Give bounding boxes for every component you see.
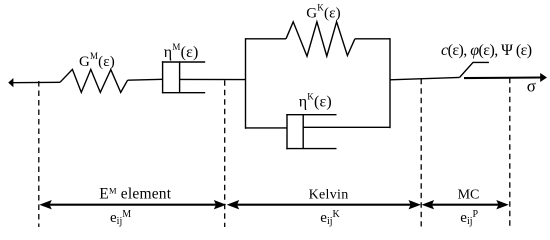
Kelvin top-right wire bbox=[355, 38, 390, 40]
dashed separator line 4 bbox=[509, 78, 511, 227]
svg-text:ηM(ε): ηM(ε) bbox=[164, 42, 199, 61]
Kelvin top-left wire bbox=[246, 38, 287, 40]
dashed separator line 2 bbox=[224, 80, 226, 227]
dashed separator line 3 bbox=[420, 79, 422, 227]
svg-text:EM element: EM element bbox=[99, 186, 171, 203]
svg-text:GM(ε): GM(ε) bbox=[79, 51, 115, 70]
svg-text:MC: MC bbox=[458, 187, 480, 202]
spring GM bbox=[60, 69, 128, 92]
svg-text:σ: σ bbox=[527, 77, 536, 96]
wire Kelvin to slider bbox=[390, 77, 460, 79]
dashpot etaK left wall bbox=[286, 114, 288, 149]
slider MC flipper diagonal bbox=[460, 62, 489, 77]
wire spring to dashpot bbox=[128, 78, 163, 81]
MC section arrow right head bbox=[496, 200, 509, 209]
svg-text:Kelvin: Kelvin bbox=[309, 187, 349, 202]
dashpot etaM piston plate bbox=[179, 62, 181, 93]
Kelvin section arrow right head bbox=[409, 200, 422, 209]
dashpot etaK cylinder top bbox=[286, 114, 336, 116]
Kelvin section arrow shaft bbox=[232, 204, 414, 206]
EM section arrow right head bbox=[214, 200, 227, 209]
dashpot etaK rod wire bbox=[303, 126, 390, 128]
spring GK bbox=[286, 22, 355, 56]
Kelvin right bar bbox=[389, 38, 391, 128]
Kelvin left bar bbox=[245, 38, 247, 129]
dashpot etaK piston plate bbox=[302, 115, 304, 149]
EM section arrow left head bbox=[39, 200, 52, 209]
Kelvin bottom-left wire bbox=[246, 127, 288, 129]
Kelvin section arrow left head bbox=[227, 200, 240, 209]
MC section arrow left head bbox=[422, 200, 435, 209]
dashpot etaM cylinder top bbox=[162, 61, 205, 63]
svg-text:eijM: eijM bbox=[110, 209, 131, 227]
svg-text:eijK: eijK bbox=[320, 209, 340, 227]
svg-text:eijP: eijP bbox=[460, 209, 478, 227]
sigma output wire bbox=[464, 76, 541, 79]
MC section arrow shaft bbox=[428, 204, 502, 206]
dashpot etaM cylinder bottom bbox=[162, 92, 205, 94]
wire left arrow to spring bbox=[12, 81, 61, 83]
svg-text:ηK(ε): ηK(ε) bbox=[299, 92, 332, 111]
svg-text:GK(ε): GK(ε) bbox=[306, 2, 341, 21]
dashpot etaM left wall bbox=[162, 61, 164, 93]
dashpot etaK cylinder bottom bbox=[286, 148, 336, 150]
dashed separator line 1 bbox=[38, 81, 40, 227]
sigma arrow head bbox=[540, 73, 547, 82]
EM section arrow shaft bbox=[46, 204, 219, 206]
left arrow head bbox=[8, 78, 13, 87]
wire dashpot to Kelvin bbox=[180, 78, 246, 80]
svg-text:c(ε), φ(ε), Ψ (ε): c(ε), φ(ε), Ψ (ε) bbox=[441, 42, 532, 59]
